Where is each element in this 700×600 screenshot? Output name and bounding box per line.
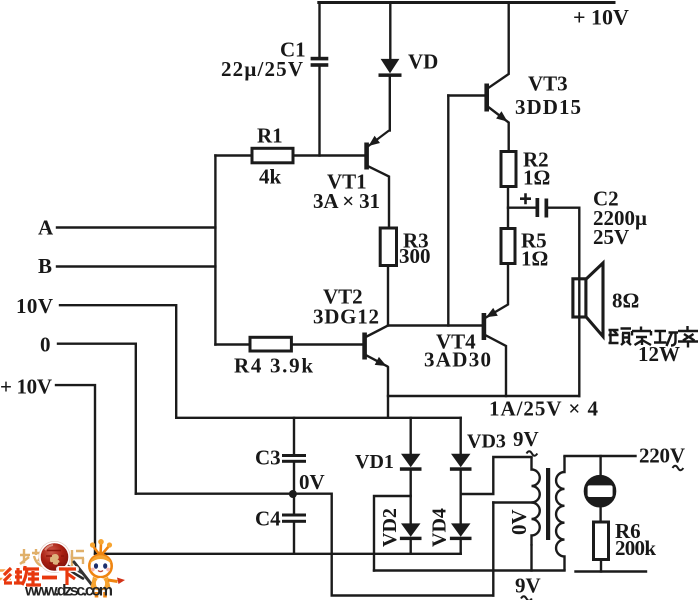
resistor R2 xyxy=(501,152,516,187)
wire VT1 collector to R3 xyxy=(367,166,390,229)
svg-text:VD3: VD3 xyxy=(467,431,506,453)
wire VD3/VD4 tap to 9V top xyxy=(461,457,532,494)
resistor R6 xyxy=(594,522,609,560)
svg-text:+ 10V: + 10V xyxy=(0,375,52,399)
svg-text:3DD15: 3DD15 xyxy=(515,95,581,119)
node 0V junction dot xyxy=(289,490,297,498)
transformer core xyxy=(546,468,550,540)
svg-text:C3: C3 xyxy=(255,446,281,470)
wire input 10V stair xyxy=(60,305,176,418)
wire input B xyxy=(57,265,215,267)
wire lamp top lead xyxy=(599,456,601,477)
capacitor C3 xyxy=(282,454,306,463)
capacitor C2 xyxy=(536,198,549,218)
diode VD4 xyxy=(450,523,472,540)
svg-text:+ 10V: + 10V xyxy=(573,5,629,30)
wire +10V top rail xyxy=(319,1,614,4)
wire R2 to R5 xyxy=(507,187,509,229)
wire R4 left lead xyxy=(215,343,250,345)
watermark weiku yixia text xyxy=(4,566,76,585)
wire C2 right lead to speaker column xyxy=(548,208,579,396)
watermark magnifier ball xyxy=(39,541,71,573)
wire primary top to 220V xyxy=(565,455,636,457)
transistor VT3 xyxy=(484,84,507,122)
wire 0V tap drop xyxy=(492,503,494,596)
wire 220V return xyxy=(576,570,647,572)
wire C1 bottom lead xyxy=(318,67,320,156)
diode VD2 xyxy=(400,523,422,540)
capacitor C4 xyxy=(282,514,306,523)
wire VD cathode to VT1 emitter xyxy=(389,77,391,131)
svg-text:B: B xyxy=(38,254,52,278)
transformer primary winding xyxy=(556,456,564,571)
wire VT3 collector xyxy=(489,3,509,88)
resistor R3 xyxy=(380,228,396,266)
wire lamp to R6 xyxy=(599,507,601,523)
watermark speed dashes xyxy=(0,571,16,580)
watermark magnifier handle / brush xyxy=(66,562,98,591)
wire R3 to node VT2C/VT4B xyxy=(387,266,389,326)
wire R4 to VT2 base xyxy=(291,343,362,345)
svg-text:C4: C4 xyxy=(255,507,281,531)
label 9V bottom tilde xyxy=(521,596,532,600)
label rated power (Chinese) xyxy=(609,326,699,348)
svg-text:300: 300 xyxy=(399,244,431,268)
svg-text:3AD30: 3AD30 xyxy=(424,348,491,372)
wire +10V rail y554 xyxy=(95,553,461,555)
wire VD top lead xyxy=(389,3,391,59)
wire 0V center tap xyxy=(493,501,531,503)
wire 0V row to C3/C4 node xyxy=(136,494,494,596)
diode VD3 xyxy=(450,454,472,471)
wire VD1 to VD2 xyxy=(410,471,412,524)
svg-text:25V: 25V xyxy=(593,225,629,249)
resistor R4 xyxy=(250,337,291,351)
wire output rail y396 to speaker xyxy=(388,395,579,397)
svg-text:1Ω: 1Ω xyxy=(521,247,548,271)
diode VD xyxy=(379,59,402,77)
transistor VT2 xyxy=(362,333,386,367)
wire C3 top lead xyxy=(293,418,295,454)
wire VD1 top lead xyxy=(410,418,412,454)
wire C3 to node 0V xyxy=(293,463,295,490)
wire R5 to VT4 emitter xyxy=(484,264,508,319)
wire secondary bottom lead xyxy=(530,546,532,571)
svg-text:9V: 9V xyxy=(515,574,541,598)
wire VT3 base drop to VT4 base xyxy=(447,96,449,326)
wire input 0 stair xyxy=(58,344,136,494)
svg-text:A: A xyxy=(38,216,54,240)
wire C4 top lead xyxy=(293,498,295,514)
indicator lamp xyxy=(585,476,615,506)
svg-text:4k: 4k xyxy=(259,165,282,189)
wire bottom rail y418 xyxy=(176,417,461,419)
transistor VT1 xyxy=(364,131,389,170)
svg-text:220V: 220V xyxy=(639,444,685,468)
watermark character pian (chip) xyxy=(72,550,84,567)
wire C2 left lead xyxy=(508,206,536,208)
svg-text:10V: 10V xyxy=(16,294,53,318)
wire 9V bottom row xyxy=(374,569,565,571)
wire VT3 emitter to R2 xyxy=(489,108,509,152)
svg-text:200k: 200k xyxy=(615,536,656,560)
wire VT2 emitter down xyxy=(365,355,388,418)
svg-text:VD2: VD2 xyxy=(379,508,401,547)
svg-text:VD1: VD1 xyxy=(355,451,394,473)
wire C1 top lead xyxy=(318,3,320,57)
wire R6 bottom lead xyxy=(600,560,602,572)
svg-text:22μ/25V: 22μ/25V xyxy=(221,57,303,81)
svg-text:VD: VD xyxy=(408,50,438,74)
wire VD4 bottom lead xyxy=(460,540,462,554)
wire input +10V stair xyxy=(56,385,95,554)
transformer secondary winding xyxy=(532,457,540,546)
wire VT2 collector xyxy=(365,326,388,338)
svg-text:VT3: VT3 xyxy=(528,72,568,96)
svg-text:3A × 31: 3A × 31 xyxy=(313,189,380,213)
svg-text:0V: 0V xyxy=(299,470,325,494)
wire A/B vertical bus xyxy=(214,156,216,345)
wire input A xyxy=(57,226,215,228)
svg-text:VD4: VD4 xyxy=(429,508,451,547)
label 220V tilde xyxy=(673,466,684,471)
svg-text:3DG12: 3DG12 xyxy=(313,305,379,329)
wire VT4 collector xyxy=(484,335,506,397)
resistor R5 xyxy=(501,229,515,264)
svg-text:9V: 9V xyxy=(513,427,539,451)
svg-text:0: 0 xyxy=(40,333,51,357)
wire VD2 bottom lead xyxy=(410,540,412,554)
svg-text:R4 3.9k: R4 3.9k xyxy=(234,354,313,378)
wire VD1/VD2 tap to 9V bottom xyxy=(374,496,411,571)
label 9V top tilde xyxy=(527,451,538,456)
wire VT4 base row xyxy=(388,324,482,326)
wire VD3 to VD4 xyxy=(460,471,462,524)
diode VD1 xyxy=(400,454,422,471)
capacitor C1 xyxy=(311,57,329,67)
watermark character zhao (find) xyxy=(20,549,43,568)
svg-text:12W: 12W xyxy=(638,342,680,366)
svg-text:www.dzsc.com: www.dzsc.com xyxy=(24,583,113,600)
watermark mascot xyxy=(89,539,125,598)
resistor R1 xyxy=(252,148,293,163)
wire C4 bottom lead xyxy=(293,523,295,554)
wire R1 row: A/B node to VT1 base xyxy=(215,154,364,156)
svg-text:R1: R1 xyxy=(257,124,283,148)
speaker xyxy=(573,263,603,337)
C2 polarity plus xyxy=(520,193,531,204)
transistor VT4 xyxy=(482,308,498,340)
svg-text:0V: 0V xyxy=(507,509,531,535)
svg-text:1A/25V × 4: 1A/25V × 4 xyxy=(489,397,599,421)
svg-text:8Ω: 8Ω xyxy=(612,289,639,313)
wire VD3 top lead xyxy=(460,418,462,454)
wire VT3 base xyxy=(448,94,484,96)
svg-text:1Ω: 1Ω xyxy=(523,166,550,190)
